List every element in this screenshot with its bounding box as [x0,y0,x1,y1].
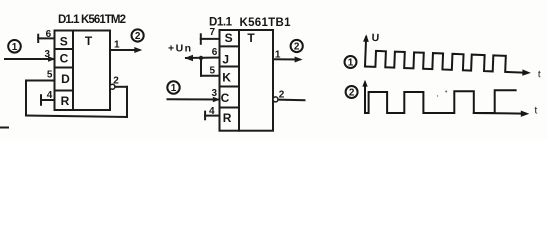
svg-text:U: U [371,32,379,44]
svg-text:T: T [247,31,255,45]
svg-text:C: C [221,91,230,105]
svg-text:1: 1 [12,42,18,53]
svg-text:4: 4 [209,106,215,117]
svg-text:2: 2 [135,31,141,42]
svg-text:R: R [61,94,70,108]
svg-text:6: 6 [46,29,52,40]
svg-text:K: K [222,71,231,85]
svg-text:K561TB1: K561TB1 [240,17,292,29]
svg-text:T: T [85,34,93,48]
svg-text:4: 4 [47,90,53,101]
svg-text:1: 1 [114,39,120,50]
svg-text:5: 5 [47,70,53,81]
svg-text:2: 2 [113,76,119,87]
svg-text:R: R [223,111,232,125]
svg-text:3: 3 [212,88,218,99]
svg-text:2: 2 [349,88,355,99]
svg-text:1: 1 [275,50,281,61]
svg-text:+Un: +Un [168,42,191,54]
svg-text:7: 7 [210,27,216,38]
svg-text:S: S [225,31,233,45]
svg-text:1: 1 [171,83,177,94]
svg-text:t: t [538,69,541,80]
svg-text:2: 2 [279,90,285,101]
svg-text:J: J [222,53,229,67]
svg-text:3: 3 [45,49,51,60]
svg-text:D1.1 K561TM2: D1.1 K561TM2 [58,14,126,26]
svg-text:5: 5 [210,66,216,77]
svg-text:D: D [61,72,70,86]
svg-text:6: 6 [212,47,218,58]
svg-text:S: S [60,35,68,49]
svg-text:2: 2 [294,42,300,53]
svg-text:C: C [60,51,69,65]
svg-text:t: t [535,106,538,117]
svg-text:1: 1 [348,58,354,69]
